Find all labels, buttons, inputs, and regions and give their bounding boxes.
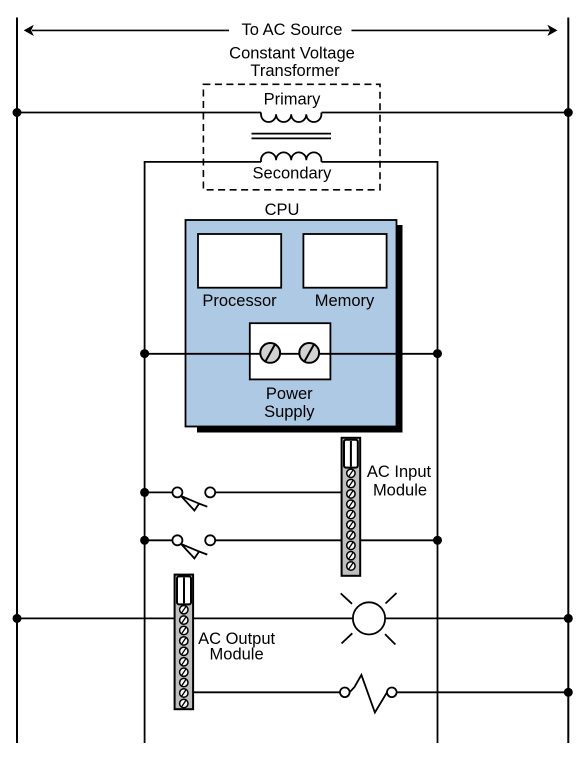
svg-text:Transformer: Transformer: [250, 62, 340, 80]
AC output module fuse: [177, 576, 191, 604]
svg-text:Primary: Primary: [264, 91, 322, 109]
node junction left rail / input rung 2: [140, 536, 149, 545]
AC output module body: [175, 575, 194, 710]
switch S2: [172, 535, 215, 558]
CPU U1 shadow: [197, 225, 403, 433]
node junction right AC rail / output rung 1: [564, 614, 573, 623]
heater element HR1: [340, 675, 397, 713]
transformer T1 core: [252, 133, 332, 135]
svg-text:Power: Power: [266, 385, 313, 403]
power supply screw terminal 1: [260, 343, 280, 363]
transformer primary winding: [261, 113, 321, 122]
node junction left rail / input rung 1: [140, 488, 149, 497]
wire through power supply: [250, 353, 331, 355]
svg-text:Secondary: Secondary: [253, 165, 333, 183]
svg-text:CPU: CPU: [265, 201, 300, 219]
node junction left AC rail / output rung 1: [13, 614, 22, 623]
AC input module fuse: [344, 440, 358, 468]
node junction left secondary rail / power rung: [140, 349, 149, 358]
node To AC Source arrow left: [24, 25, 229, 36]
switch S1: [172, 487, 215, 510]
power supply screw terminal 2: [299, 343, 319, 363]
node junction right secondary rail / power rung: [433, 349, 442, 358]
power supply box: [250, 323, 331, 379]
svg-text:AC Input: AC Input: [367, 463, 432, 481]
wire right AC rail: [567, 18, 569, 744]
wire output rung 2: [193, 691, 340, 693]
node junction right rail / input rung 2: [433, 536, 442, 545]
transformer T1 dashed boundary: [203, 84, 380, 190]
wire right secondary rail: [437, 161, 439, 743]
wire input rung 2 right: [360, 539, 437, 541]
wire secondary rung: [145, 161, 261, 163]
wire input rung 1: [145, 491, 173, 493]
wire left AC rail: [16, 18, 18, 744]
wire output rung 1 left: [17, 617, 175, 619]
node junction right rail / primary: [564, 108, 573, 117]
svg-text:Memory: Memory: [315, 292, 375, 310]
svg-text:To AC Source: To AC Source: [242, 21, 343, 39]
AC input module body: [342, 438, 361, 576]
AC input module terminals: [347, 469, 355, 570]
AC input module terminal slots: [349, 470, 353, 569]
svg-text:Supply: Supply: [264, 403, 315, 421]
svg-text:Processor: Processor: [202, 292, 277, 310]
transformer secondary winding: [261, 152, 321, 162]
svg-text:Module: Module: [210, 646, 264, 664]
wire output rung 1 right: [193, 617, 353, 619]
node junction left rail / primary: [13, 108, 22, 117]
wire input rung 2: [145, 539, 173, 541]
svg-text:Constant Voltage: Constant Voltage: [229, 45, 355, 63]
AC output module terminals: [180, 606, 188, 708]
node junction right AC rail / output rung 2: [564, 688, 573, 697]
wire left secondary rail: [144, 161, 146, 743]
processor box: [198, 234, 281, 288]
wire primary rung: [17, 112, 261, 114]
CPU U1 body: [186, 220, 397, 427]
node To AC Source arrow right: [352, 25, 558, 36]
AC output module terminal slots: [182, 607, 186, 707]
lamp L1: [341, 593, 397, 645]
memory box: [303, 234, 386, 288]
svg-text:Module: Module: [373, 482, 427, 500]
wire power supply rung: [145, 353, 438, 355]
